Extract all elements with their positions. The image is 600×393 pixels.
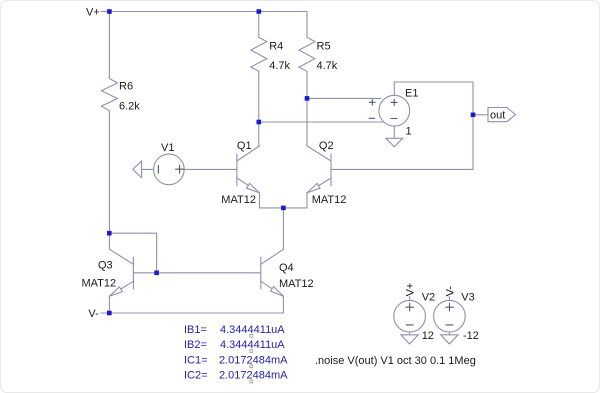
voltage source V1 bbox=[154, 154, 185, 185]
svg-text:1: 1 bbox=[406, 126, 412, 138]
node R4 bottom bbox=[257, 120, 262, 125]
node V+ bbox=[107, 9, 112, 14]
node Q3 collector bbox=[107, 231, 112, 236]
transistor Q4 bbox=[261, 249, 284, 313]
svg-text:.noise V(out) V1 oct 30 0.1 1M: .noise V(out) V1 oct 30 0.1 1Meg bbox=[315, 355, 476, 367]
svg-text:V1: V1 bbox=[161, 142, 174, 154]
wire R5 top bbox=[306, 12, 308, 38]
wire out stub bbox=[473, 114, 488, 116]
transistor Q3 bbox=[109, 249, 133, 313]
svg-text:12: 12 bbox=[422, 330, 434, 342]
wire E1 plus control bbox=[307, 97, 381, 99]
svg-text:Q4: Q4 bbox=[279, 262, 294, 274]
svg-text:6.2k: 6.2k bbox=[119, 100, 140, 112]
wire Q3 base to Q4 base bbox=[157, 272, 261, 274]
svg-text:MAT12: MAT12 bbox=[279, 278, 314, 290]
wire R5 bottom to junction bbox=[306, 71, 308, 98]
E1 plus mark control bbox=[370, 100, 376, 106]
svg-text:4.7k: 4.7k bbox=[269, 60, 290, 72]
V1 plus mark bbox=[176, 165, 184, 173]
transistor Q1 bbox=[237, 146, 260, 208]
resistor R5 bbox=[299, 37, 315, 71]
node Q3 base bbox=[154, 271, 159, 276]
junction nodes bbox=[107, 9, 475, 315]
svg-text:Q1: Q1 bbox=[237, 140, 252, 152]
svg-text:-12: -12 bbox=[463, 330, 479, 342]
svg-text:IC1=: IC1= bbox=[184, 355, 208, 367]
measurement text bbox=[184, 324, 288, 382]
svg-text:out: out bbox=[490, 110, 505, 122]
wire feedback vertical bbox=[472, 82, 474, 169]
svg-text:R6: R6 bbox=[119, 81, 133, 93]
wire Q3 base bbox=[133, 272, 156, 274]
wire Q3 collector to base loop top bbox=[109, 232, 156, 234]
wire V2 top stub bbox=[409, 297, 411, 301]
node V- bbox=[107, 311, 112, 316]
svg-text:4.7k: 4.7k bbox=[317, 60, 338, 72]
svg-text:IB1=: IB1= bbox=[184, 324, 207, 336]
anchor squares of measurement labels bbox=[250, 334, 253, 383]
svg-text:MAT12: MAT12 bbox=[312, 194, 347, 206]
V3 plus mark bbox=[446, 303, 454, 311]
ground at E1 bbox=[386, 138, 403, 147]
E1 minus mark inside bbox=[391, 118, 397, 120]
wire Q3 collector junction bbox=[108, 233, 110, 249]
wire feedback top bbox=[394, 81, 473, 83]
svg-text:MAT12: MAT12 bbox=[221, 194, 256, 206]
svg-text:2.0172484mA: 2.0172484mA bbox=[219, 355, 288, 367]
node out bbox=[471, 113, 476, 118]
wire emitter rail bbox=[260, 207, 308, 209]
wire R6 bottom to Q3 collector junction bbox=[108, 111, 110, 233]
svg-text:V-: V- bbox=[88, 308, 99, 320]
wire R6 top bbox=[108, 12, 110, 79]
wire R5 junction to Q2 collector bbox=[306, 98, 308, 146]
V1 minus mark bbox=[157, 166, 159, 174]
voltage source V2 bbox=[394, 300, 426, 332]
resistor R6 bbox=[101, 78, 117, 110]
wire R4 junction to Q1 collector bbox=[258, 122, 260, 146]
node R5 bottom bbox=[305, 96, 310, 101]
node emitter rail bbox=[281, 206, 286, 211]
out port bbox=[488, 108, 516, 122]
wire tail current bbox=[282, 208, 284, 249]
svg-text:R4: R4 bbox=[269, 41, 283, 53]
wire V- rail bbox=[101, 312, 283, 314]
svg-text:2.0172484mA: 2.0172484mA bbox=[219, 370, 288, 382]
svg-text:V2: V2 bbox=[422, 291, 435, 303]
svg-text:V+: V+ bbox=[86, 6, 100, 18]
wire Q2 base to feedback bbox=[331, 168, 473, 170]
svg-text:E1: E1 bbox=[405, 88, 418, 100]
V3 minus mark bbox=[446, 324, 453, 326]
V2 minus mark bbox=[406, 324, 413, 326]
wire V+ flag stub bbox=[101, 11, 109, 13]
wire top rail bbox=[109, 11, 307, 13]
svg-text:Q2: Q2 bbox=[319, 140, 334, 152]
wire V2 bottom stub bbox=[409, 332, 411, 335]
wire V1 to Q1 base bbox=[184, 168, 237, 170]
E1 plus mark inside bbox=[391, 99, 397, 105]
svg-text:R5: R5 bbox=[317, 41, 331, 53]
wire R4 bottom bbox=[258, 71, 260, 122]
wire V3 bottom stub bbox=[448, 332, 450, 335]
wire E1 top pin bbox=[393, 82, 395, 95]
wire base loop vertical bbox=[156, 233, 158, 273]
voltage source V3 bbox=[434, 300, 466, 332]
ground at V3 bbox=[441, 335, 458, 344]
svg-text:Q3: Q3 bbox=[98, 260, 113, 272]
E1 minus mark control bbox=[369, 117, 375, 119]
ground at V1 (rotated) bbox=[133, 161, 142, 177]
svg-text:V3: V3 bbox=[461, 291, 474, 303]
wire E1 minus control bbox=[259, 121, 384, 123]
node top rail R4 bbox=[257, 9, 262, 14]
wire E1 bottom pin bbox=[393, 126, 395, 138]
transistor Q2 bbox=[307, 146, 331, 208]
svg-text:V-: V- bbox=[445, 286, 457, 297]
vcvs E1 bbox=[379, 95, 410, 126]
resistor R4 bbox=[251, 37, 267, 71]
svg-text:IC2=: IC2= bbox=[184, 370, 208, 382]
V2 plus mark bbox=[406, 303, 414, 311]
ground at V2 bbox=[401, 335, 418, 344]
wire R4 top bbox=[258, 12, 260, 38]
svg-text:MAT12: MAT12 bbox=[82, 277, 117, 289]
svg-text:V+: V+ bbox=[405, 283, 417, 297]
svg-text:IB2=: IB2= bbox=[184, 339, 207, 351]
wire V3 top stub bbox=[448, 297, 450, 301]
